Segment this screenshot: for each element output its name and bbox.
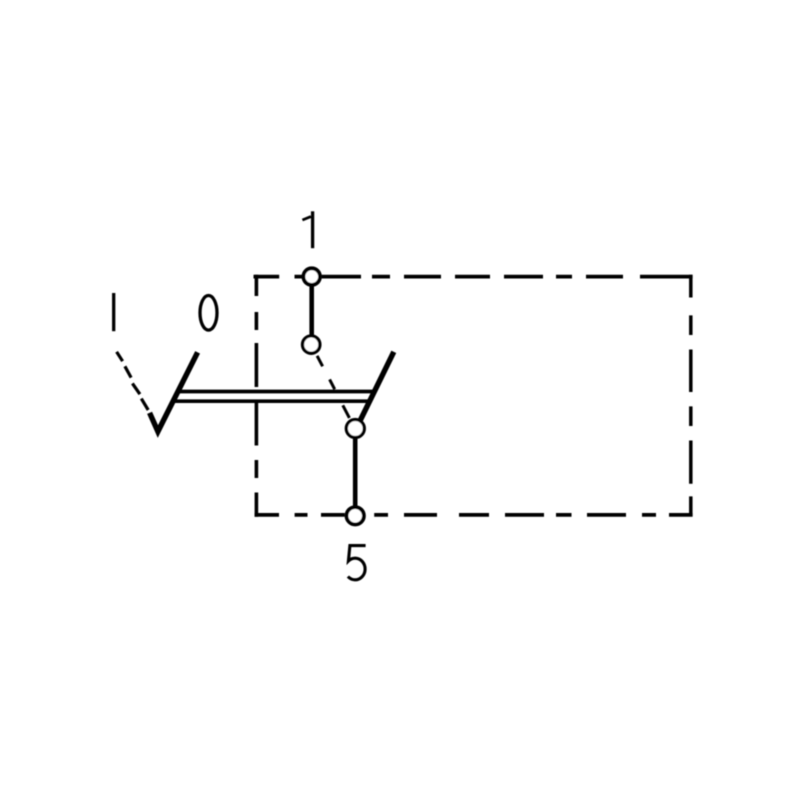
enclosure bottom border (dash-dot chain line) [255, 513, 693, 517]
enclosure top border (dash-dot chain line) [254, 275, 693, 279]
label 0 (position marker) [200, 296, 217, 331]
mechanical coupling bar lower line [173, 399, 370, 403]
terminal circle 1 [303, 268, 320, 285]
rocker lever right (solid, position 0) [360, 352, 394, 422]
dashed actuator position line left (position I) [117, 352, 149, 410]
mechanical coupling bar upper line [177, 390, 375, 394]
wire stub from terminal 1 to moving contact [309, 286, 314, 337]
dashed contact travel line right (toward terminal 5 contact) [317, 356, 349, 418]
enclosure left border (dash-dot chain line) [255, 275, 259, 517]
moving contact circle upper (C2) [303, 336, 320, 353]
rocker lever left (solid, position 0, with bend tick) [150, 352, 198, 431]
enclosure right border (dash-dot chain line) [689, 275, 693, 517]
label 1 (terminal number) [302, 211, 312, 248]
label I (position marker) [112, 293, 115, 331]
terminal circle 5 [347, 507, 364, 524]
label 5 (terminal number) [348, 546, 366, 580]
moving contact circle lower (C3) [346, 420, 364, 438]
wire stub from lower contact to terminal 5 [353, 438, 358, 508]
